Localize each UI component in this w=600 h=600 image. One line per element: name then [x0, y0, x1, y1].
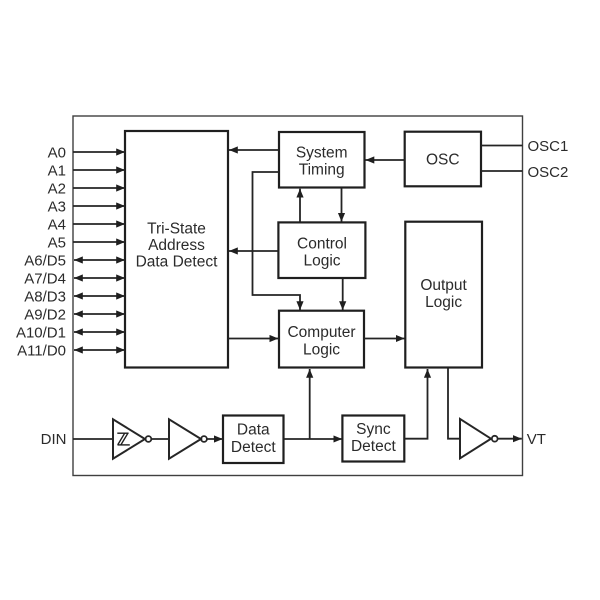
block Output Logic	[405, 222, 482, 368]
svg-text:OSC: OSC	[426, 151, 460, 168]
wire System Timing to Tri-State arrow	[229, 149, 279, 151]
svg-text:A8/D3: A8/D3	[24, 288, 66, 305]
block Data Detect	[223, 416, 284, 464]
block Sync Detect	[342, 416, 404, 462]
inverter U2 triangle	[169, 419, 201, 458]
wire A3 input arrow	[73, 205, 125, 207]
wire A10/D1 bidirectional arrow	[74, 331, 125, 333]
inverter U1 bubble	[146, 436, 152, 442]
block Computer Logic	[279, 311, 364, 368]
inverter U3 bubble	[492, 436, 498, 442]
svg-text:A9/D2: A9/D2	[24, 306, 66, 323]
svg-text:A1: A1	[48, 162, 66, 179]
svg-text:Output: Output	[420, 277, 467, 294]
svg-text:Logic: Logic	[303, 341, 340, 358]
svg-text:DIN: DIN	[41, 431, 67, 448]
wire Output Logic to VT buffer	[448, 368, 460, 439]
svg-text:VT: VT	[527, 431, 546, 448]
schmitt hysteresis Z symbol	[117, 433, 130, 445]
svg-text:A2: A2	[48, 180, 66, 197]
wire OSC2 pin	[481, 170, 523, 172]
wire U2 to Data Detect arrow	[207, 438, 223, 440]
wire A5 input arrow	[73, 241, 125, 243]
svg-text:A6/D5: A6/D5	[24, 252, 66, 269]
wire DIN input	[73, 438, 113, 440]
svg-text:Control: Control	[297, 235, 347, 252]
wire U1 to U2	[151, 438, 169, 440]
svg-text:Logic: Logic	[303, 253, 340, 270]
svg-text:Tri-State: Tri-State	[147, 220, 206, 237]
wire VT output arrow	[498, 438, 522, 440]
svg-text:A10/D1: A10/D1	[16, 324, 66, 341]
svg-text:Data: Data	[237, 422, 270, 439]
wire System Timing to Computer Logic elbow arrow	[253, 172, 301, 310]
svg-text:OSC2: OSC2	[528, 164, 569, 181]
wire A7/D4 bidirectional arrow	[74, 277, 125, 279]
wire A4 input arrow	[73, 223, 125, 225]
inverter U3 triangle	[460, 419, 491, 458]
chip outer border	[73, 116, 523, 476]
wire junction to Computer Logic up arrow	[309, 369, 311, 439]
inverter U2 bubble	[201, 436, 207, 442]
svg-text:Address: Address	[148, 237, 205, 254]
inverter U1 schmitt trigger triangle	[113, 419, 145, 458]
svg-text:Computer: Computer	[287, 324, 355, 341]
svg-text:A3: A3	[48, 198, 66, 215]
wire A11/D0 bidirectional arrow	[74, 349, 125, 351]
svg-text:OSC1: OSC1	[528, 138, 569, 155]
wire OSC to System Timing arrow	[366, 159, 405, 161]
svg-text:A4: A4	[48, 216, 66, 233]
svg-text:Sync: Sync	[356, 421, 391, 438]
svg-text:A0: A0	[48, 144, 66, 161]
svg-text:A5: A5	[48, 234, 66, 251]
wire Data Detect to Sync Detect arrow	[284, 438, 343, 440]
wire System Timing to Control Logic down arrow	[341, 188, 343, 222]
wire Tri-State to Computer Logic arrow	[228, 338, 278, 340]
block Tri-State Address Data Detect	[125, 131, 228, 368]
wire OSC1 pin	[481, 145, 523, 147]
wire Sync Detect to Output Logic up arrow	[404, 369, 427, 439]
wire Control Logic to Tri-State arrow	[229, 250, 278, 252]
svg-text:Logic: Logic	[425, 294, 462, 311]
wire A0 input arrow	[73, 151, 125, 153]
wire A6/D5 bidirectional arrow	[74, 259, 125, 261]
svg-text:A11/D0: A11/D0	[17, 342, 66, 359]
wire A1 input arrow	[73, 169, 125, 171]
svg-text:Detect: Detect	[351, 438, 396, 455]
svg-text:System: System	[296, 145, 348, 162]
svg-text:A7/D4: A7/D4	[24, 270, 66, 287]
wire A8/D3 bidirectional arrow	[74, 295, 125, 297]
block OSC	[405, 132, 481, 187]
block System Timing	[279, 132, 365, 188]
svg-text:Data Detect: Data Detect	[136, 254, 219, 271]
wire A9/D2 bidirectional arrow	[74, 313, 125, 315]
svg-text:Detect: Detect	[231, 439, 276, 456]
wire Computer Logic to Output Logic arrow	[364, 338, 405, 340]
block Control Logic	[278, 222, 365, 278]
svg-text:Timing: Timing	[299, 162, 345, 179]
wire A2 input arrow	[73, 187, 125, 189]
wire Control Logic to Computer Logic down arrow	[342, 279, 344, 311]
wire Control Logic to System Timing up arrow	[299, 189, 301, 222]
